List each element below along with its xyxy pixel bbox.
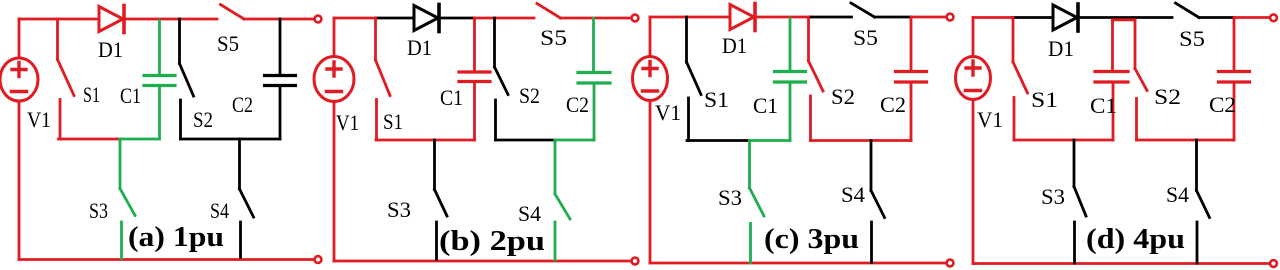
switch S5 (panel d) xyxy=(1176,3,1200,18)
svg-text:S4: S4 xyxy=(841,182,865,207)
terminal: bottom output node (panel b) xyxy=(632,258,639,265)
capacitor C1 (panel d) xyxy=(1095,20,1128,140)
switch S3 (panel c) xyxy=(750,141,765,263)
switch S3 (panel d) xyxy=(1074,140,1086,263)
svg-text:S4: S4 xyxy=(1166,182,1189,207)
svg-text:S3: S3 xyxy=(387,197,411,222)
capacitor C1 (panel b) xyxy=(459,20,490,141)
svg-text:(c) 3pu: (c) 3pu xyxy=(764,223,859,255)
svg-text:D1: D1 xyxy=(1048,36,1074,61)
wire: bottom rail panel c xyxy=(650,262,946,265)
svg-text:(b) 2pu: (b) 2pu xyxy=(439,225,545,257)
wire: top rail red segment right (panel c) xyxy=(911,16,946,19)
wire: top rail black segment after S5 (panel c) xyxy=(875,16,912,19)
svg-text:S3: S3 xyxy=(89,198,108,223)
svg-text:S2: S2 xyxy=(831,84,855,109)
terminal: top output node (panel b) xyxy=(632,15,639,22)
svg-text:V1: V1 xyxy=(336,110,359,135)
source V1 (panel b) xyxy=(314,57,354,102)
svg-text:(d) 4pu: (d) 4pu xyxy=(1086,223,1185,255)
wire: mid-right rail (panel d) xyxy=(1137,139,1235,142)
wire: left rail panel d xyxy=(972,18,975,264)
diode D1 (panel a) xyxy=(99,6,124,33)
wire: top rail after S5 (panel b) xyxy=(561,17,631,20)
switch S4 (panel c) xyxy=(871,141,885,263)
wire: top rail red segment left (panel d) xyxy=(973,16,1013,19)
wire: top rail black segment before S5 (panel c) xyxy=(811,16,852,19)
svg-text:S2: S2 xyxy=(1154,84,1181,109)
svg-text:C2: C2 xyxy=(1209,92,1236,117)
svg-text:C1: C1 xyxy=(1090,93,1117,118)
svg-text:C1: C1 xyxy=(753,93,778,118)
switch S2 (panel b) xyxy=(495,18,509,140)
svg-text:D1: D1 xyxy=(407,35,432,60)
source V1 (panel a) xyxy=(0,58,38,101)
switch S1 (panel d) xyxy=(1013,18,1028,141)
capacitor C1 (panel a) xyxy=(144,21,175,140)
switch S3 (panel b) xyxy=(435,140,448,260)
wire: top rail red segment left (panel c) xyxy=(650,16,811,19)
switch S4 (panel d) xyxy=(1197,140,1210,263)
svg-text:S1: S1 xyxy=(383,109,403,134)
terminal: top output node (panel a) xyxy=(315,16,322,23)
capacitor C1 (panel c) xyxy=(775,19,806,141)
svg-text:C2: C2 xyxy=(566,92,589,117)
wire: mid-left rail green segment (panel c) xyxy=(750,139,791,142)
switch S5 (panel a) xyxy=(221,5,245,20)
svg-text:V1: V1 xyxy=(977,107,1003,132)
wire: mid-left rail green segment (panel a) xyxy=(120,138,160,141)
diode D1 (panel d) xyxy=(1053,4,1078,31)
svg-text:S5: S5 xyxy=(1179,26,1205,51)
switch S1 (panel a) xyxy=(58,19,75,139)
wire: mid-right rail green segment (panel b) xyxy=(555,139,594,142)
svg-text:S4: S4 xyxy=(518,201,541,226)
capacitor C2 (panel b) xyxy=(578,18,610,140)
source V1 (panel c) xyxy=(633,57,668,101)
wire: top rail red segment right (panel d) xyxy=(1234,16,1269,19)
switch S2 (panel c) xyxy=(809,17,824,141)
wire: top rail panel a (right of S5) xyxy=(244,18,314,21)
terminal: bottom output node (panel d) xyxy=(1270,260,1277,267)
wire: mid-right rail black segment (panel b) xyxy=(496,139,556,142)
wire: top rail panel a (left of S5) xyxy=(19,18,217,21)
svg-text:S1: S1 xyxy=(704,87,729,112)
svg-text:V1: V1 xyxy=(27,107,51,132)
svg-text:C2: C2 xyxy=(880,92,906,117)
terminal: bottom output node (panel c) xyxy=(947,260,954,267)
wire: mid-left rail red segment (panel a) xyxy=(59,138,121,141)
svg-text:S2: S2 xyxy=(519,83,540,108)
switch S1 (panel c) xyxy=(687,17,702,141)
terminal: top output node (panel c) xyxy=(947,14,954,21)
switch S5 (panel c) xyxy=(851,3,875,17)
wire: mid-right rail (panel a) xyxy=(181,138,281,141)
terminal: bottom output node (panel a) xyxy=(315,256,322,263)
wire: bottom rail panel a xyxy=(19,258,314,261)
wire: top rail red segment left (panel b) xyxy=(334,17,376,20)
capacitor C2 (panel a) xyxy=(265,19,296,139)
switch S1 (panel b) xyxy=(376,18,391,140)
switch S2 (panel a) xyxy=(180,19,194,139)
switch S3 (panel a) xyxy=(120,139,135,259)
svg-text:C1: C1 xyxy=(120,83,141,108)
svg-text:(a) 1pu: (a) 1pu xyxy=(128,221,224,253)
wire: left rail panel a xyxy=(18,19,21,260)
capacitor C2 (panel c) xyxy=(896,19,927,141)
switch S4 (panel a) xyxy=(240,139,254,258)
wire: mid-left rail (panel b) xyxy=(376,139,475,142)
svg-text:C1: C1 xyxy=(440,85,463,110)
wire: top rail black segment through D1 (panel d) xyxy=(1013,16,1172,19)
wire: mid-left rail (panel d) xyxy=(1014,139,1113,142)
wire: top rail red segment right (panel b) xyxy=(475,17,535,20)
wire: left rail panel c xyxy=(649,17,652,263)
wire: top rail black segment after S5 (panel d) xyxy=(1199,16,1234,19)
wire: red link C1-S2 under rail (panel d) xyxy=(1113,18,1136,21)
wire: mid-left rail black segment (panel c) xyxy=(687,139,750,142)
svg-text:S4: S4 xyxy=(210,198,229,223)
svg-text:C2: C2 xyxy=(232,92,253,117)
svg-text:S3: S3 xyxy=(1041,184,1065,209)
diode D1 (panel c) xyxy=(730,4,755,31)
terminal: top output node (panel d) xyxy=(1270,14,1277,21)
source V1 (panel d) xyxy=(956,57,991,100)
svg-text:S1: S1 xyxy=(1031,87,1058,112)
svg-text:V1: V1 xyxy=(655,100,681,125)
switch S2 (panel d) xyxy=(1135,20,1147,140)
wire: top rail black segment through D1 (panel b) xyxy=(376,17,475,20)
wire: bottom rail panel d xyxy=(973,262,1269,265)
svg-text:S5: S5 xyxy=(540,25,567,50)
svg-text:S5: S5 xyxy=(217,31,239,56)
switch S4 (panel b) xyxy=(555,140,570,260)
svg-text:D1: D1 xyxy=(722,33,747,58)
wire: mid-right rail (panel c) xyxy=(811,139,912,142)
wire: left rail panel b xyxy=(333,18,336,261)
capacitor C2 (panel d) xyxy=(1219,19,1250,141)
svg-text:S1: S1 xyxy=(83,82,100,107)
wire: bottom rail panel b xyxy=(334,260,631,263)
switch S5 (panel b) xyxy=(537,4,561,19)
svg-text:D1: D1 xyxy=(98,37,123,62)
svg-text:S5: S5 xyxy=(853,25,878,50)
svg-text:S2: S2 xyxy=(193,107,213,132)
diode D1 (panel b) xyxy=(414,5,439,32)
svg-text:S3: S3 xyxy=(718,185,742,210)
